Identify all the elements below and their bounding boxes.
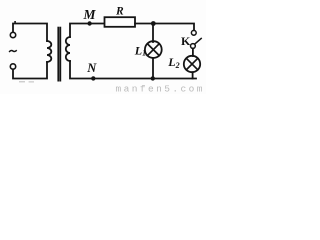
lamp L2 bulb <box>184 56 200 72</box>
svg-text:N: N <box>86 61 97 75</box>
lamp L2 cross <box>186 58 198 70</box>
svg-text:R: R <box>115 5 124 17</box>
junction dot after resistor <box>151 21 156 26</box>
resistor R body <box>105 17 136 27</box>
node N junction dot <box>91 76 95 80</box>
transformer core line 2 <box>59 28 61 81</box>
primary coil winding <box>47 41 51 62</box>
wire: primary bottom lead <box>13 62 47 79</box>
junction dot at lamp L1 bottom <box>151 76 155 80</box>
transformer core line 1 <box>57 28 59 81</box>
scan artifact dash 2 under bottom-left wire <box>29 81 34 82</box>
secondary coil winding <box>66 37 70 61</box>
wire: secondary bottom lead <box>70 61 196 79</box>
switch K blade <box>195 38 202 44</box>
wire: resistor to right corner and switch <box>135 24 194 31</box>
wire: secondary top lead to node M and resistor <box>70 24 104 38</box>
scan artifact dash 1 under bottom-left wire <box>19 81 25 82</box>
wire: lamp L1 to bottom rail <box>152 58 154 79</box>
terminal (bottom input, open circle) <box>10 64 15 69</box>
switch K bottom contact <box>191 44 196 49</box>
terminal (top input, open circle) <box>10 32 15 37</box>
wire: primary top lead <box>13 24 47 42</box>
svg-text:K: K <box>181 34 191 48</box>
svg-text:M: M <box>83 7 97 22</box>
lamp L1 cross <box>147 44 159 56</box>
AC source tilde <box>10 50 17 51</box>
scan artifact tick at top-left corner <box>14 21 16 23</box>
wire: branch down to lamp L1 <box>152 24 154 43</box>
svg-text:manfen5.com: manfen5.com <box>116 83 205 94</box>
node M junction dot <box>87 21 91 25</box>
wire: lamp L2 to bottom rail <box>192 72 194 78</box>
lamp L1 bulb <box>145 41 162 58</box>
wire: switch to lamp L2 <box>192 48 194 56</box>
switch K top contact <box>191 30 196 35</box>
